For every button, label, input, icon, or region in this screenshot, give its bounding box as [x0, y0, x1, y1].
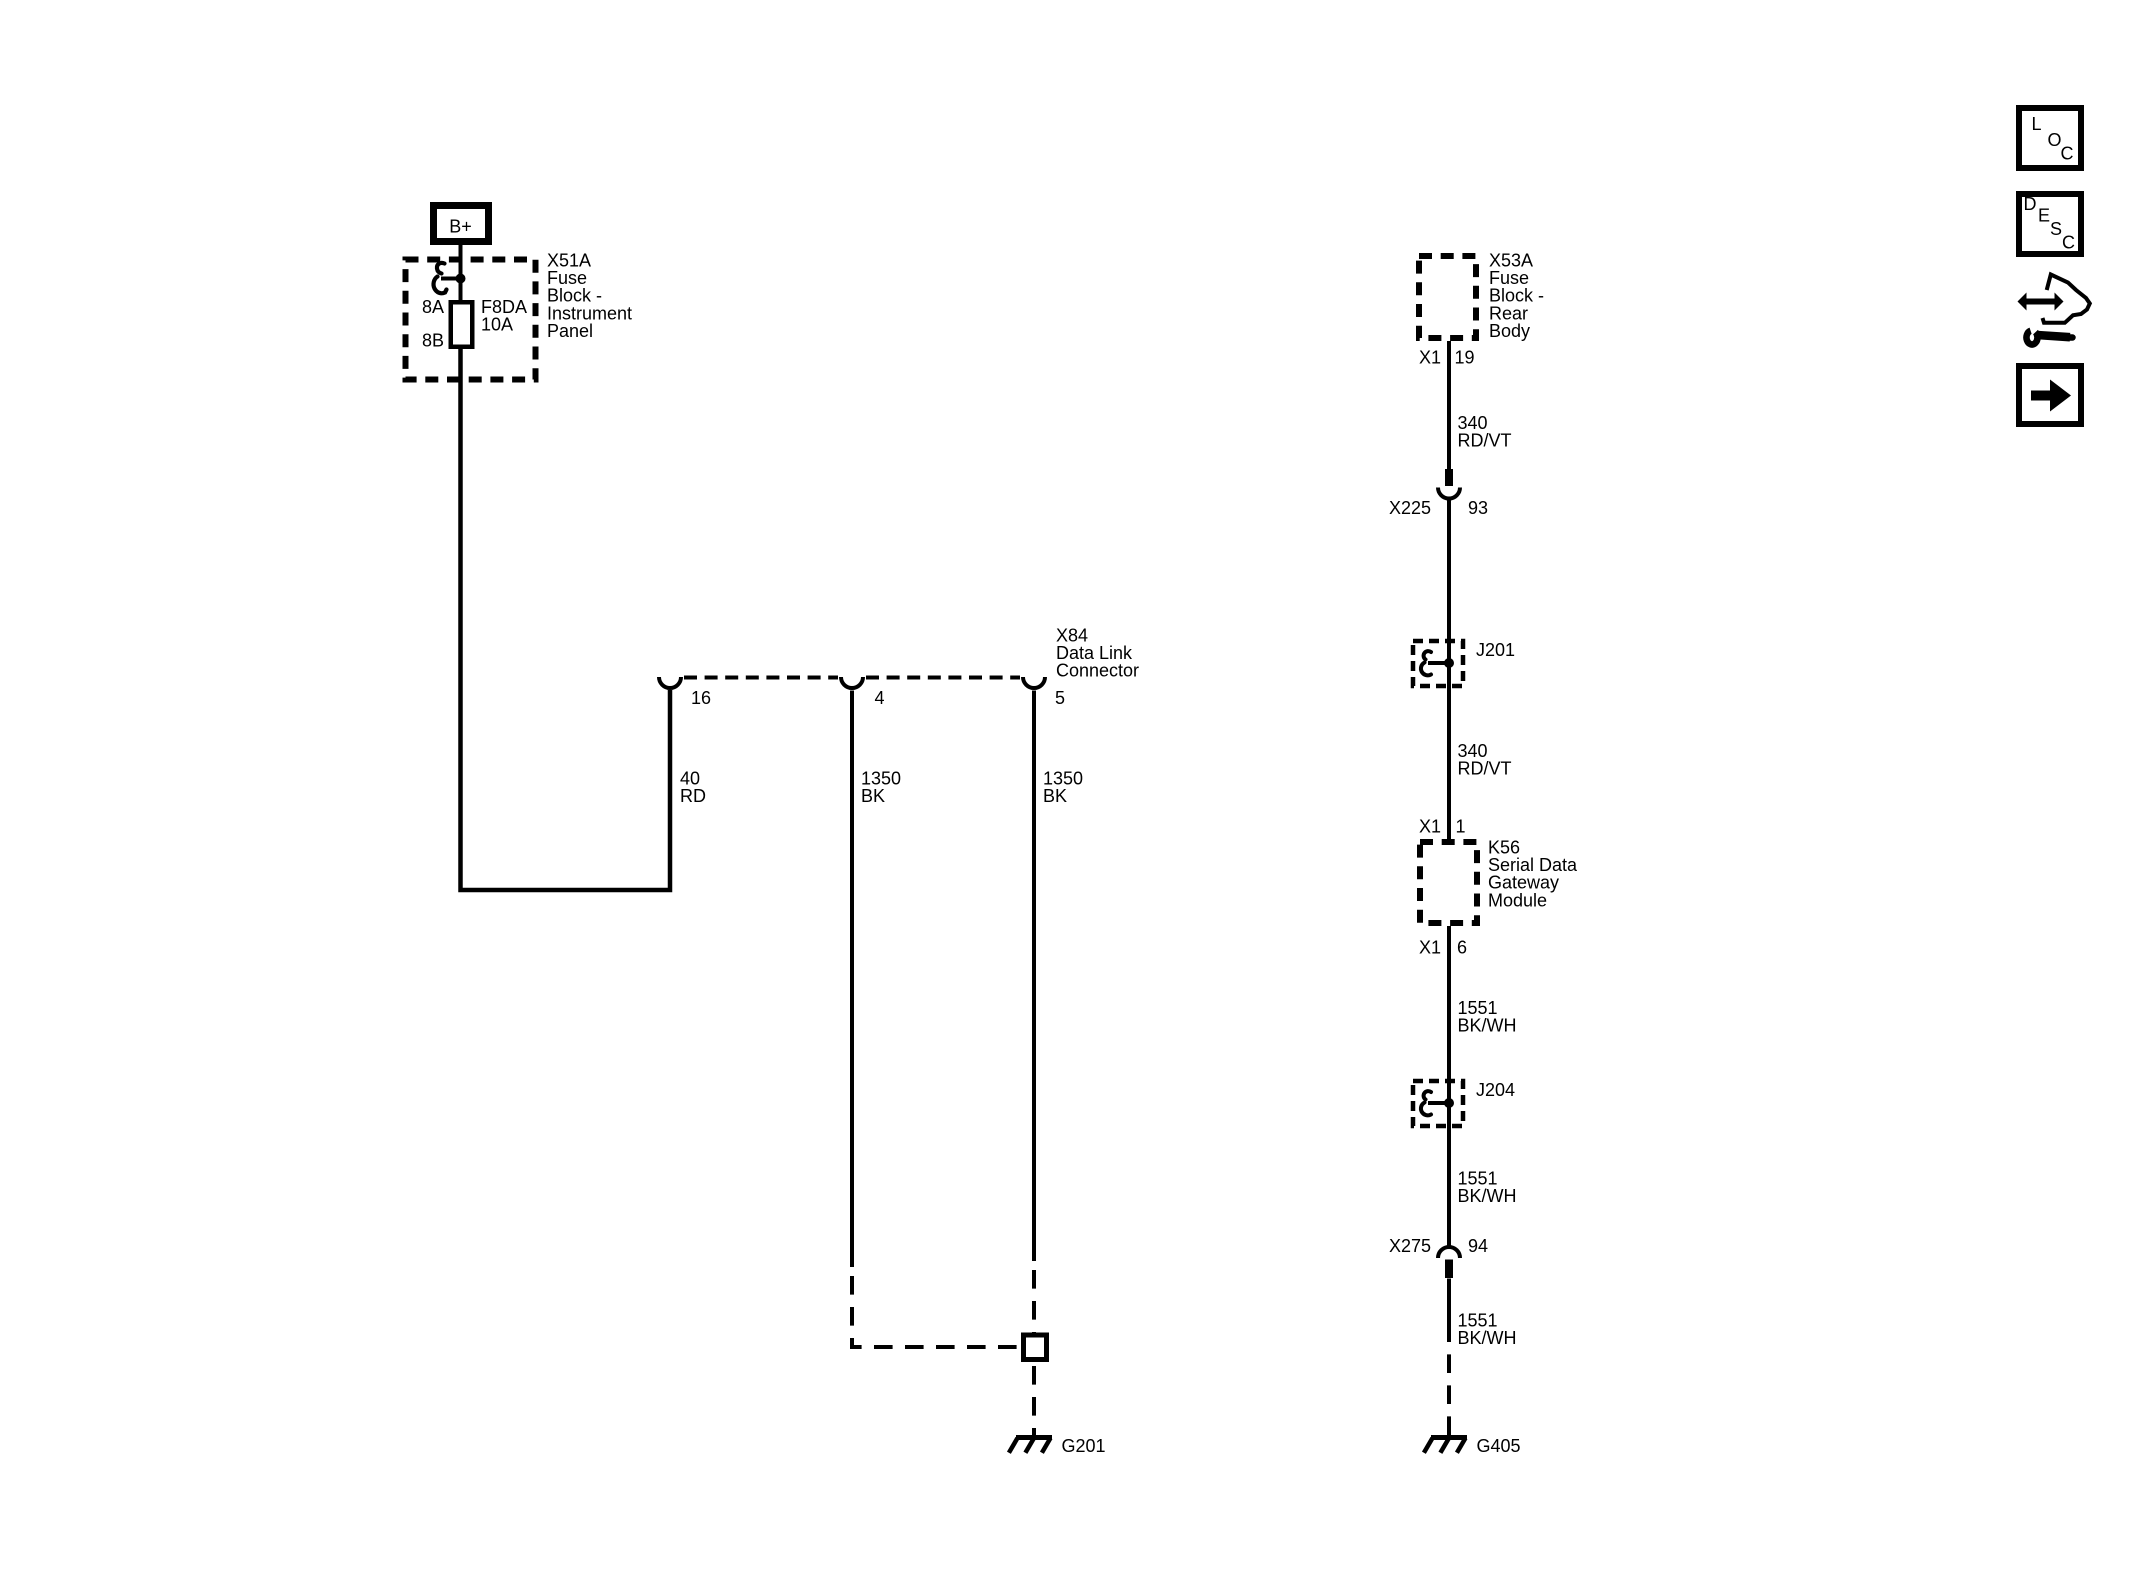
- svg-text:BK: BK: [1043, 786, 1067, 806]
- wire 340 RD/VT from X53A to X225: [1447, 341, 1451, 469]
- svg-text:X1: X1: [1419, 348, 1441, 368]
- junction dot at fuse feed node: [456, 274, 466, 284]
- dashed lead to ground G405: [1447, 1342, 1451, 1436]
- next page arrow icon: [2019, 366, 2081, 424]
- wire 340 RD/VT from X225 through J201 to K56: [1447, 497, 1451, 840]
- svg-text:1: 1: [1456, 817, 1466, 837]
- svg-text:19: 19: [1455, 348, 1475, 368]
- connector cup X84 pin 16: [659, 677, 681, 688]
- svg-text:C: C: [2062, 233, 2075, 253]
- svg-text:G201: G201: [1062, 1436, 1106, 1456]
- pin label X1 19 of X53A: [1419, 348, 1475, 368]
- wire 1350 BK from DLC pin 5 (solid run): [1032, 691, 1036, 1262]
- svg-text:94: 94: [1468, 1236, 1488, 1256]
- svg-text:Body: Body: [1489, 321, 1530, 341]
- module K56 dashed outline: [1420, 842, 1477, 923]
- ground symbol G405: [1424, 1438, 1467, 1453]
- wire from B+ into fuse block X51A: [459, 243, 463, 300]
- svg-text:BK/WH: BK/WH: [1458, 1328, 1517, 1348]
- label X225 93: [1389, 498, 1488, 518]
- dashed bus inside X84 between pin 4 and pin 5: [866, 676, 1020, 680]
- splice hook symbol J204: [1421, 1091, 1449, 1115]
- svg-text:X1: X1: [1419, 938, 1441, 958]
- junction dot at splice J204: [1444, 1098, 1454, 1108]
- svg-text:4: 4: [875, 688, 885, 708]
- wire label 40 RD: [680, 769, 706, 807]
- splice J204 dashed outline: [1413, 1081, 1463, 1126]
- connector cup X84 pin 5: [1023, 677, 1045, 688]
- svg-text:BK: BK: [861, 786, 885, 806]
- svg-text:X225: X225: [1389, 498, 1431, 518]
- junction dot at splice J201: [1444, 658, 1454, 668]
- wire label 1551 BK/WH: [1458, 998, 1517, 1036]
- wire 1350 BK from DLC pin 4 (solid run): [850, 691, 854, 1268]
- LOC navigation icon: [2019, 108, 2081, 168]
- inline connector X225 pin 93: [1438, 469, 1460, 499]
- svg-text:6: 6: [1457, 938, 1467, 958]
- svg-text:16: 16: [691, 688, 711, 708]
- wire 1350 BK from pin 4 (hidden run to ground box): [852, 1267, 1018, 1347]
- svg-text:93: 93: [1468, 498, 1488, 518]
- svg-text:O: O: [2048, 130, 2062, 150]
- svg-text:X275: X275: [1389, 1236, 1431, 1256]
- svg-text:Connector: Connector: [1056, 661, 1139, 681]
- fuse value label F8DA 10A: [481, 297, 527, 335]
- label X84 Data Link Connector: [1056, 626, 1139, 681]
- ground symbol G201: [1009, 1438, 1052, 1453]
- wire label 1350 BK (pin 5 circuit): [1043, 769, 1083, 807]
- svg-text:8B: 8B: [422, 331, 444, 351]
- svg-text:BK/WH: BK/WH: [1458, 1186, 1517, 1206]
- fuse F8DA: [451, 302, 473, 347]
- wire label 1551 BK/WH (ground lead): [1458, 1311, 1517, 1349]
- fuse block X51A dashed outline: [406, 260, 536, 380]
- svg-text:E: E: [2038, 206, 2050, 226]
- pin label X1 1 of K56: [1419, 817, 1466, 837]
- svg-text:S: S: [2050, 219, 2062, 239]
- svg-text:BK/WH: BK/WH: [1458, 1016, 1517, 1036]
- wire label 1551 BK/WH (below J204): [1458, 1169, 1517, 1207]
- wire 1350 BK from pin 5 (hidden run to ground box): [1032, 1261, 1036, 1333]
- svg-text:RD/VT: RD/VT: [1458, 759, 1512, 779]
- label X53A Fuse Block - Rear Body: [1489, 251, 1544, 341]
- connector cup X84 pin 4: [841, 677, 863, 688]
- svg-text:L: L: [2032, 114, 2042, 134]
- wire label 1350 BK (pin 4 circuit): [861, 769, 901, 807]
- svg-text:G405: G405: [1477, 1436, 1521, 1456]
- connector hook symbol at fuse block feed: [434, 263, 461, 293]
- pin label X1 6 of K56: [1419, 938, 1467, 958]
- wire label 340 RD/VT (below J201): [1458, 741, 1512, 779]
- svg-text:10A: 10A: [481, 315, 513, 335]
- wire 1551 BK/WH from X275 toward G405 (solid run): [1447, 1279, 1451, 1343]
- svg-text:Panel: Panel: [547, 321, 593, 341]
- svg-text:D: D: [2024, 194, 2037, 214]
- dashed lead from eyelet to ground G201: [1032, 1364, 1036, 1436]
- splice J201 dashed outline: [1413, 641, 1463, 686]
- inline connector X275 pin 94: [1438, 1247, 1460, 1278]
- svg-text:X1: X1: [1419, 817, 1441, 837]
- dashed bus inside X84 between pin 16 and pin 4: [684, 676, 838, 680]
- DESC navigation icon: [2019, 194, 2081, 254]
- diagnostic repair icon (arrows, harness outline, wrench): [2018, 275, 2090, 345]
- svg-text:Module: Module: [1488, 890, 1547, 910]
- wire 1551 BK/WH from K56 through J204 to X275: [1447, 926, 1451, 1247]
- wire 40 RD from fuse 8B down, right and up to DLC pin 16: [461, 349, 671, 890]
- svg-text:RD: RD: [680, 786, 706, 806]
- svg-text:5: 5: [1055, 688, 1065, 708]
- svg-text:RD/VT: RD/VT: [1458, 431, 1512, 451]
- svg-text:J201: J201: [1476, 640, 1515, 660]
- svg-text:B+: B+: [449, 217, 472, 237]
- fuse block X53A dashed outline: [1419, 256, 1476, 338]
- label X51A Fuse Block - Instrument Panel: [547, 251, 632, 341]
- wire label 340 RD/VT: [1458, 413, 1512, 451]
- splice hook symbol J201: [1421, 651, 1449, 675]
- svg-text:8A: 8A: [422, 297, 444, 317]
- battery feed terminal B+: [434, 206, 489, 242]
- label K56 Serial Data Gateway Module: [1488, 838, 1578, 911]
- ground eyelet box above G201: [1024, 1335, 1047, 1360]
- label X275 94: [1389, 1236, 1488, 1256]
- svg-text:J204: J204: [1476, 1080, 1515, 1100]
- svg-text:C: C: [2061, 144, 2074, 164]
